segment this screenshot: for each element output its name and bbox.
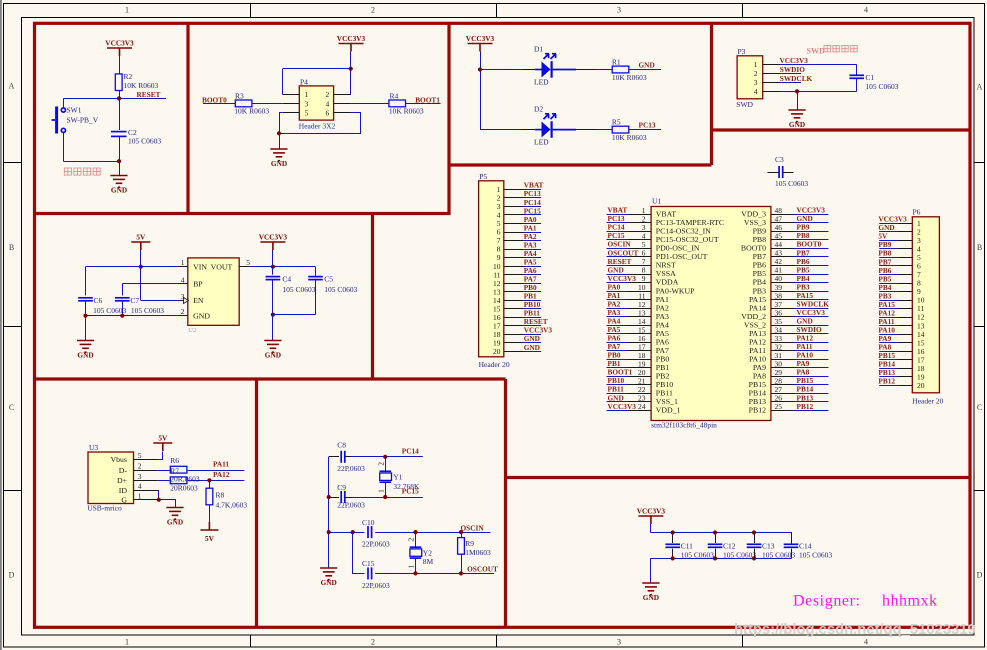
net labels P5 xyxy=(524,181,553,352)
wire C12 bottom leg xyxy=(715,549,717,559)
resistor R4 symbol xyxy=(389,100,406,107)
svg-text:A: A xyxy=(9,82,15,91)
svg-text:3: 3 xyxy=(138,472,142,481)
wire to ground right xyxy=(272,315,274,340)
block divider below reset+boot xyxy=(33,212,451,215)
svg-text:P5: P5 xyxy=(479,172,487,181)
capacitor C9 symbol xyxy=(341,491,345,503)
svg-text:C4: C4 xyxy=(282,275,291,284)
svg-text:105 C0603: 105 C0603 xyxy=(775,179,808,188)
svg-text:OSCOUT: OSCOUT xyxy=(467,565,498,574)
column ticks bottom xyxy=(251,635,743,647)
net labels U1 left xyxy=(608,206,639,411)
column numbers bottom xyxy=(125,638,868,647)
pin lines U2 left xyxy=(177,267,188,316)
power port 5V (usb) xyxy=(153,434,172,452)
lead C8 right xyxy=(345,456,352,458)
node junction C13 top xyxy=(752,530,756,534)
svg-text:P3: P3 xyxy=(738,47,746,56)
capacitor C13 symbol xyxy=(747,544,762,547)
wire R9 bottom xyxy=(461,554,463,573)
svg-text:Designer:: Designer: xyxy=(793,593,861,610)
svg-text:2: 2 xyxy=(407,538,416,542)
capacitor C11 symbol xyxy=(665,544,680,547)
block divider usb/osc xyxy=(255,379,258,627)
svg-text:4: 4 xyxy=(864,6,868,15)
wire R8 to 5V xyxy=(209,505,211,529)
pin names U3 xyxy=(111,455,128,505)
wire C4 top xyxy=(272,267,274,275)
node junction C15 branch xyxy=(351,530,355,534)
svg-text:GND: GND xyxy=(639,61,655,70)
svg-text:105 C0603: 105 C0603 xyxy=(865,82,898,91)
svg-text:1: 1 xyxy=(407,565,416,569)
node junction R9 bottom xyxy=(459,571,463,575)
resistor R5 symbol xyxy=(612,126,629,133)
node junction D1 xyxy=(478,67,482,71)
node junction C2/GND xyxy=(117,159,121,163)
resistor R2 symbol xyxy=(115,74,122,91)
crystal Y2 xyxy=(410,547,422,558)
svg-text:C10: C10 xyxy=(362,518,375,527)
svg-text:C7: C7 xyxy=(130,296,139,305)
svg-text:SWDIO: SWDIO xyxy=(780,65,805,74)
svg-text:EN: EN xyxy=(193,296,204,305)
wire 5V trunk xyxy=(140,250,142,300)
svg-text:R2: R2 xyxy=(124,72,133,81)
node junction C6 xyxy=(83,314,87,318)
power port VCC3V3 (reset) xyxy=(105,39,134,57)
svg-text:U2: U2 xyxy=(188,327,196,334)
svg-text:GND: GND xyxy=(789,120,805,129)
svg-text:22P,0603: 22P,0603 xyxy=(337,500,365,509)
wire C11 top leg xyxy=(672,533,674,544)
svg-text:105 C0603: 105 C0603 xyxy=(681,551,714,560)
row ticks left xyxy=(3,163,21,491)
svg-text:Y1: Y1 xyxy=(393,472,402,481)
wire bottom horizontal xyxy=(63,161,119,163)
power port 5V (regulator) xyxy=(131,233,150,251)
svg-text:GND: GND xyxy=(193,311,210,320)
svg-text:BP: BP xyxy=(193,279,203,288)
wire to R5 xyxy=(596,129,612,131)
wire C2 to bottom xyxy=(119,136,121,161)
node junction Y2 bottom xyxy=(413,571,417,575)
svg-text:GND: GND xyxy=(265,350,281,359)
ground (decoupling) xyxy=(642,583,659,602)
svg-text:stm32f103c8t6_48pin: stm32f103c8t6_48pin xyxy=(651,420,717,429)
wire VCC3V3 to R2 xyxy=(119,56,121,74)
svg-text:PB12: PB12 xyxy=(797,402,814,411)
wire C15 left leg xyxy=(353,533,365,574)
svg-text:VCC3V3: VCC3V3 xyxy=(259,233,288,242)
svg-text:SWDCLK: SWDCLK xyxy=(780,74,813,83)
wire bottom rail xyxy=(651,558,792,560)
svg-text:1: 1 xyxy=(125,6,129,15)
wire BOOT0 to R3 xyxy=(203,103,235,105)
wire C7 bottom xyxy=(122,301,124,316)
node junction VOUT xyxy=(271,265,275,269)
svg-text:LED: LED xyxy=(534,78,549,87)
block divider led right xyxy=(710,23,713,165)
connector U3 USB xyxy=(88,452,134,504)
svg-text:GND: GND xyxy=(643,593,659,602)
wire node to C2 xyxy=(119,98,121,130)
wire Y1 bottom xyxy=(385,482,387,497)
svg-text:2: 2 xyxy=(138,462,142,471)
svg-text:B: B xyxy=(977,243,982,252)
svg-text:VDD_1: VDD_1 xyxy=(656,406,681,415)
wire VCC3V3 drop xyxy=(272,250,274,267)
wire pin2 SWDIO xyxy=(780,73,801,75)
svg-text:22P,0603: 22P,0603 xyxy=(362,540,390,549)
pin lines P3 xyxy=(763,65,780,92)
wire R5 to net xyxy=(629,129,661,131)
svg-text:D: D xyxy=(977,571,983,580)
svg-text:2: 2 xyxy=(371,638,375,647)
svg-text:C14: C14 xyxy=(799,541,812,550)
svg-text:hhhmxk: hhhmxk xyxy=(882,593,937,610)
node junction trunk C9 xyxy=(327,495,331,499)
svg-text:GND: GND xyxy=(111,185,127,194)
wire VCC trunk xyxy=(480,52,482,130)
block divider osc/bottomright xyxy=(504,379,507,627)
pin numbers P6 xyxy=(917,219,925,390)
pin names U2 xyxy=(193,262,232,320)
wire VOUT row xyxy=(250,266,316,268)
svg-text:SW1: SW1 xyxy=(67,106,82,115)
power port 5V (usb bottom, inverted) xyxy=(200,522,218,543)
pin numbers U2 xyxy=(181,258,251,316)
svg-text:4: 4 xyxy=(864,638,868,647)
wire D+ to R7 xyxy=(158,480,170,482)
wires P6 stubs xyxy=(879,224,898,386)
header P3 xyxy=(737,56,763,99)
wire C13 bottom leg xyxy=(754,549,756,559)
pin numbers P5 xyxy=(493,185,501,356)
pin names U1 left xyxy=(656,210,724,415)
resistor R6 symbol xyxy=(170,466,187,473)
power port VCC3V3 (decoupling) xyxy=(637,507,666,525)
node junction Y1 top xyxy=(383,455,387,459)
svg-text:G: G xyxy=(121,496,127,505)
svg-text:PA12: PA12 xyxy=(213,470,230,479)
wire VCC3V3 down to pin2 xyxy=(350,52,352,95)
row letters right xyxy=(977,83,983,580)
svg-text:C8: C8 xyxy=(337,440,346,449)
pin line U2 VOUT xyxy=(239,266,250,268)
wire R4 to BOOT1 xyxy=(406,103,441,105)
svg-text:8M: 8M xyxy=(423,557,434,566)
pin lines P6 xyxy=(898,224,912,386)
pin names U1 right xyxy=(741,210,766,415)
capacitor C8 symbol xyxy=(341,451,345,463)
svg-text:BOOT0: BOOT0 xyxy=(202,95,227,104)
svg-text:C5: C5 xyxy=(324,275,333,284)
wire R2 to RESET node xyxy=(119,91,121,99)
node junction R8 xyxy=(207,478,211,482)
wire junction to ground xyxy=(279,133,281,148)
wire VCC3V3 drop xyxy=(650,524,652,533)
block divider reset/boot xyxy=(186,23,189,213)
wire EN row xyxy=(141,300,177,302)
svg-text:Header 20: Header 20 xyxy=(479,360,510,369)
svg-text:GND: GND xyxy=(77,350,93,359)
svg-text:22P,0603: 22P,0603 xyxy=(362,581,390,590)
svg-text:PA11: PA11 xyxy=(213,460,229,469)
LED D2 xyxy=(535,114,576,138)
resistor R8 symbol xyxy=(206,488,213,505)
ground (regulator right) xyxy=(264,341,281,360)
capacitor C10 symbol xyxy=(368,526,372,538)
wire Y1 top xyxy=(385,457,387,472)
pin numbers U3 xyxy=(138,451,142,501)
wire pin5 loop xyxy=(280,113,361,134)
pin lines P4 right xyxy=(334,95,351,113)
svg-text:22P,0603: 22P,0603 xyxy=(337,464,365,473)
svg-text:4: 4 xyxy=(181,275,185,284)
svg-text:20R0603: 20R0603 xyxy=(170,483,198,492)
svg-text:C13: C13 xyxy=(762,541,775,550)
wire bottom row xyxy=(273,314,316,316)
power port VCC3V3 (boot) xyxy=(337,34,366,52)
node junction C11 bottom xyxy=(671,556,675,560)
wire C13 top leg xyxy=(754,533,756,544)
svg-text:5V: 5V xyxy=(158,434,168,443)
block divider led/mcu xyxy=(449,163,712,166)
svg-text:5: 5 xyxy=(246,258,250,267)
wire pin3 SWDCLK xyxy=(780,82,801,84)
svg-text:R9: R9 xyxy=(465,539,474,548)
node RESET junction xyxy=(117,96,121,100)
wire C5 bottom leg xyxy=(315,280,317,315)
svg-text:PB12: PB12 xyxy=(749,406,766,415)
wire OSCIN row left xyxy=(329,532,365,534)
svg-text:ID: ID xyxy=(119,486,128,495)
column ticks top xyxy=(251,3,743,17)
capacitor C12 symbol xyxy=(708,544,723,547)
node junction Y1 bottom xyxy=(383,495,387,499)
lead C8 left xyxy=(329,456,339,458)
svg-text:20: 20 xyxy=(917,381,925,390)
svg-text:GND: GND xyxy=(524,343,540,352)
node junction C13 bottom xyxy=(752,556,756,560)
header P6 xyxy=(912,217,939,393)
wire ID to G xyxy=(158,491,159,500)
pin numbers P4 xyxy=(305,90,330,117)
svg-text:C11: C11 xyxy=(681,541,693,550)
block divider boot/led xyxy=(447,23,450,214)
wire pin4 to R4 xyxy=(351,103,389,105)
svg-text:5: 5 xyxy=(138,451,142,460)
wire R9 top xyxy=(461,532,463,538)
svg-text:OSCIN: OSCIN xyxy=(461,523,485,532)
svg-text:D-: D- xyxy=(119,466,128,475)
svg-text:105 C0603: 105 C0603 xyxy=(282,285,315,294)
resistor R1 symbol xyxy=(612,66,629,73)
pin numbers U1 left xyxy=(638,206,646,411)
svg-text:SWD: SWD xyxy=(736,100,753,109)
svg-text:LED: LED xyxy=(534,138,549,147)
wires P5 stubs xyxy=(523,190,541,352)
wire C14 bottom leg xyxy=(791,549,793,559)
wire R1 to net xyxy=(629,69,661,71)
wire loop left down to pin1 xyxy=(282,69,284,95)
svg-text:U3: U3 xyxy=(89,443,98,452)
ground (boot) xyxy=(270,149,287,168)
pin lines U1 left xyxy=(628,215,651,411)
wire D1 row xyxy=(480,69,535,71)
pin lines P5 xyxy=(504,190,523,352)
resistor R3 symbol xyxy=(235,100,252,107)
ground (regulator left) xyxy=(77,341,94,360)
pin lines P4 left xyxy=(283,95,300,113)
lead C9 left xyxy=(329,497,339,499)
node junction C12 top xyxy=(713,530,717,534)
svg-text:Header 3X2: Header 3X2 xyxy=(299,122,336,131)
svg-text:2: 2 xyxy=(754,69,758,78)
header P4 xyxy=(299,86,333,120)
svg-text:5V: 5V xyxy=(136,233,146,242)
svg-text:R1: R1 xyxy=(612,58,621,67)
svg-text:VCC3V3: VCC3V3 xyxy=(608,402,637,411)
node junction gnd xyxy=(277,131,281,135)
LED D1 xyxy=(535,54,576,78)
pin line D2 anode xyxy=(522,129,536,131)
node junction R9 top xyxy=(459,530,463,534)
svg-text:3: 3 xyxy=(617,6,621,15)
wire to ground xyxy=(797,91,799,109)
node junction VCC loop xyxy=(349,67,353,71)
wire C11 bottom leg xyxy=(672,549,674,559)
pin numbers P3 xyxy=(754,60,758,96)
svg-text:SWD: SWD xyxy=(807,47,825,56)
wire to ground xyxy=(650,558,652,582)
svg-text:SW-PB_V: SW-PB_V xyxy=(67,116,99,125)
capacitor C2 symbol xyxy=(111,132,127,137)
svg-text:VCC3V3: VCC3V3 xyxy=(780,56,809,65)
svg-text:Header 20: Header 20 xyxy=(912,397,943,406)
wire osc trunk xyxy=(328,457,330,568)
wire C6 bottom xyxy=(85,301,87,316)
svg-text:RESET: RESET xyxy=(137,90,161,99)
svg-text:VIN: VIN xyxy=(193,262,207,271)
wire C7 top xyxy=(122,284,124,296)
svg-text:https://blog.csdn.net/qq_51023: https://blog.csdn.net/qq_51023319 xyxy=(734,622,976,638)
svg-text:10K R0603: 10K R0603 xyxy=(124,81,159,90)
svg-text:R8: R8 xyxy=(216,491,225,500)
svg-text:25: 25 xyxy=(775,402,783,411)
crystal Y1 xyxy=(380,471,392,482)
row letters left xyxy=(9,82,15,580)
wire junction to ground xyxy=(119,161,121,175)
wire R3 to pin3 xyxy=(252,103,283,105)
svg-text:10K R0603: 10K R0603 xyxy=(234,107,269,116)
svg-text:105 C0603: 105 C0603 xyxy=(131,306,164,315)
node junction C7 xyxy=(120,314,124,318)
block divider mcu bottom xyxy=(506,476,971,479)
wire R7 to PA12 xyxy=(188,480,245,482)
wire C6 top xyxy=(85,267,87,296)
wire pin1 VCC3V3 xyxy=(780,64,857,66)
svg-text:D1: D1 xyxy=(534,45,543,54)
svg-text:C6: C6 xyxy=(94,296,103,305)
svg-text:R3: R3 xyxy=(235,91,244,100)
svg-text:Vbus: Vbus xyxy=(111,455,127,464)
svg-text:10K R0603: 10K R0603 xyxy=(612,133,647,142)
svg-text:105 C0603: 105 C0603 xyxy=(799,551,832,560)
wire pin4 gnd rail xyxy=(780,91,857,93)
IC U1 stm32f103c8t6 xyxy=(651,207,771,421)
svg-text:3: 3 xyxy=(754,78,758,87)
capacitor C5 symbol xyxy=(308,277,323,280)
ground (osc) xyxy=(320,568,337,587)
svg-text:D: D xyxy=(9,571,15,580)
svg-text:105 C0603: 105 C0603 xyxy=(128,137,161,146)
svg-text:R4: R4 xyxy=(390,91,399,100)
wire C1 top xyxy=(856,65,858,76)
node junction C11 top xyxy=(671,530,675,534)
wire D2 row xyxy=(480,129,535,131)
wire C10 to OSCIN xyxy=(375,532,490,534)
power port VCC3V3 (led) xyxy=(466,34,495,52)
svg-text:P4: P4 xyxy=(300,78,308,87)
svg-text:C3: C3 xyxy=(775,155,784,164)
svg-text:R6: R6 xyxy=(170,456,179,465)
svg-text:10K R0603: 10K R0603 xyxy=(612,73,647,82)
pin line D1 anode xyxy=(522,69,536,71)
node junction ID/G xyxy=(157,498,161,502)
svg-text:R5: R5 xyxy=(612,118,621,127)
wire top rail xyxy=(651,533,792,544)
svg-text:PC15: PC15 xyxy=(402,487,419,496)
wire C5 top leg xyxy=(315,267,317,277)
svg-text:4: 4 xyxy=(138,482,142,491)
svg-text:VCC3V3: VCC3V3 xyxy=(637,507,666,516)
wire Y2 bottom xyxy=(415,558,417,573)
svg-text:C: C xyxy=(9,403,14,412)
svg-text:1: 1 xyxy=(754,60,758,69)
lead C3 right xyxy=(783,172,794,174)
pin lines U1 right xyxy=(771,215,794,411)
svg-text:C15: C15 xyxy=(362,559,375,568)
svg-text:1: 1 xyxy=(125,638,129,647)
capacitor C3 symbol xyxy=(779,166,783,178)
svg-text:GND: GND xyxy=(271,159,287,168)
svg-text:C9: C9 xyxy=(337,483,346,492)
wire to R1 xyxy=(596,69,612,71)
switch SW1 xyxy=(52,107,66,134)
svg-text:5: 5 xyxy=(305,109,309,118)
svg-text:4: 4 xyxy=(326,99,330,108)
window edge strip xyxy=(0,0,2,650)
text 复位电路 (CJK) xyxy=(64,168,100,175)
node junction gnd xyxy=(795,89,799,93)
pin numbers U1 right xyxy=(775,206,783,411)
node junction C4 gnd xyxy=(271,313,275,317)
capacitor C4 symbol xyxy=(266,277,281,280)
wire loop top xyxy=(283,68,351,70)
node junction VIN xyxy=(139,265,143,269)
svg-text:PC14: PC14 xyxy=(402,446,419,455)
svg-text:105 C0603: 105 C0603 xyxy=(762,551,795,560)
lead C9 right xyxy=(345,497,352,499)
svg-text:A: A xyxy=(977,83,983,92)
net labels U1 right xyxy=(797,206,830,411)
header P5 xyxy=(479,181,504,357)
capacitor C7 symbol xyxy=(115,298,130,301)
block divider regulator right xyxy=(371,214,374,380)
